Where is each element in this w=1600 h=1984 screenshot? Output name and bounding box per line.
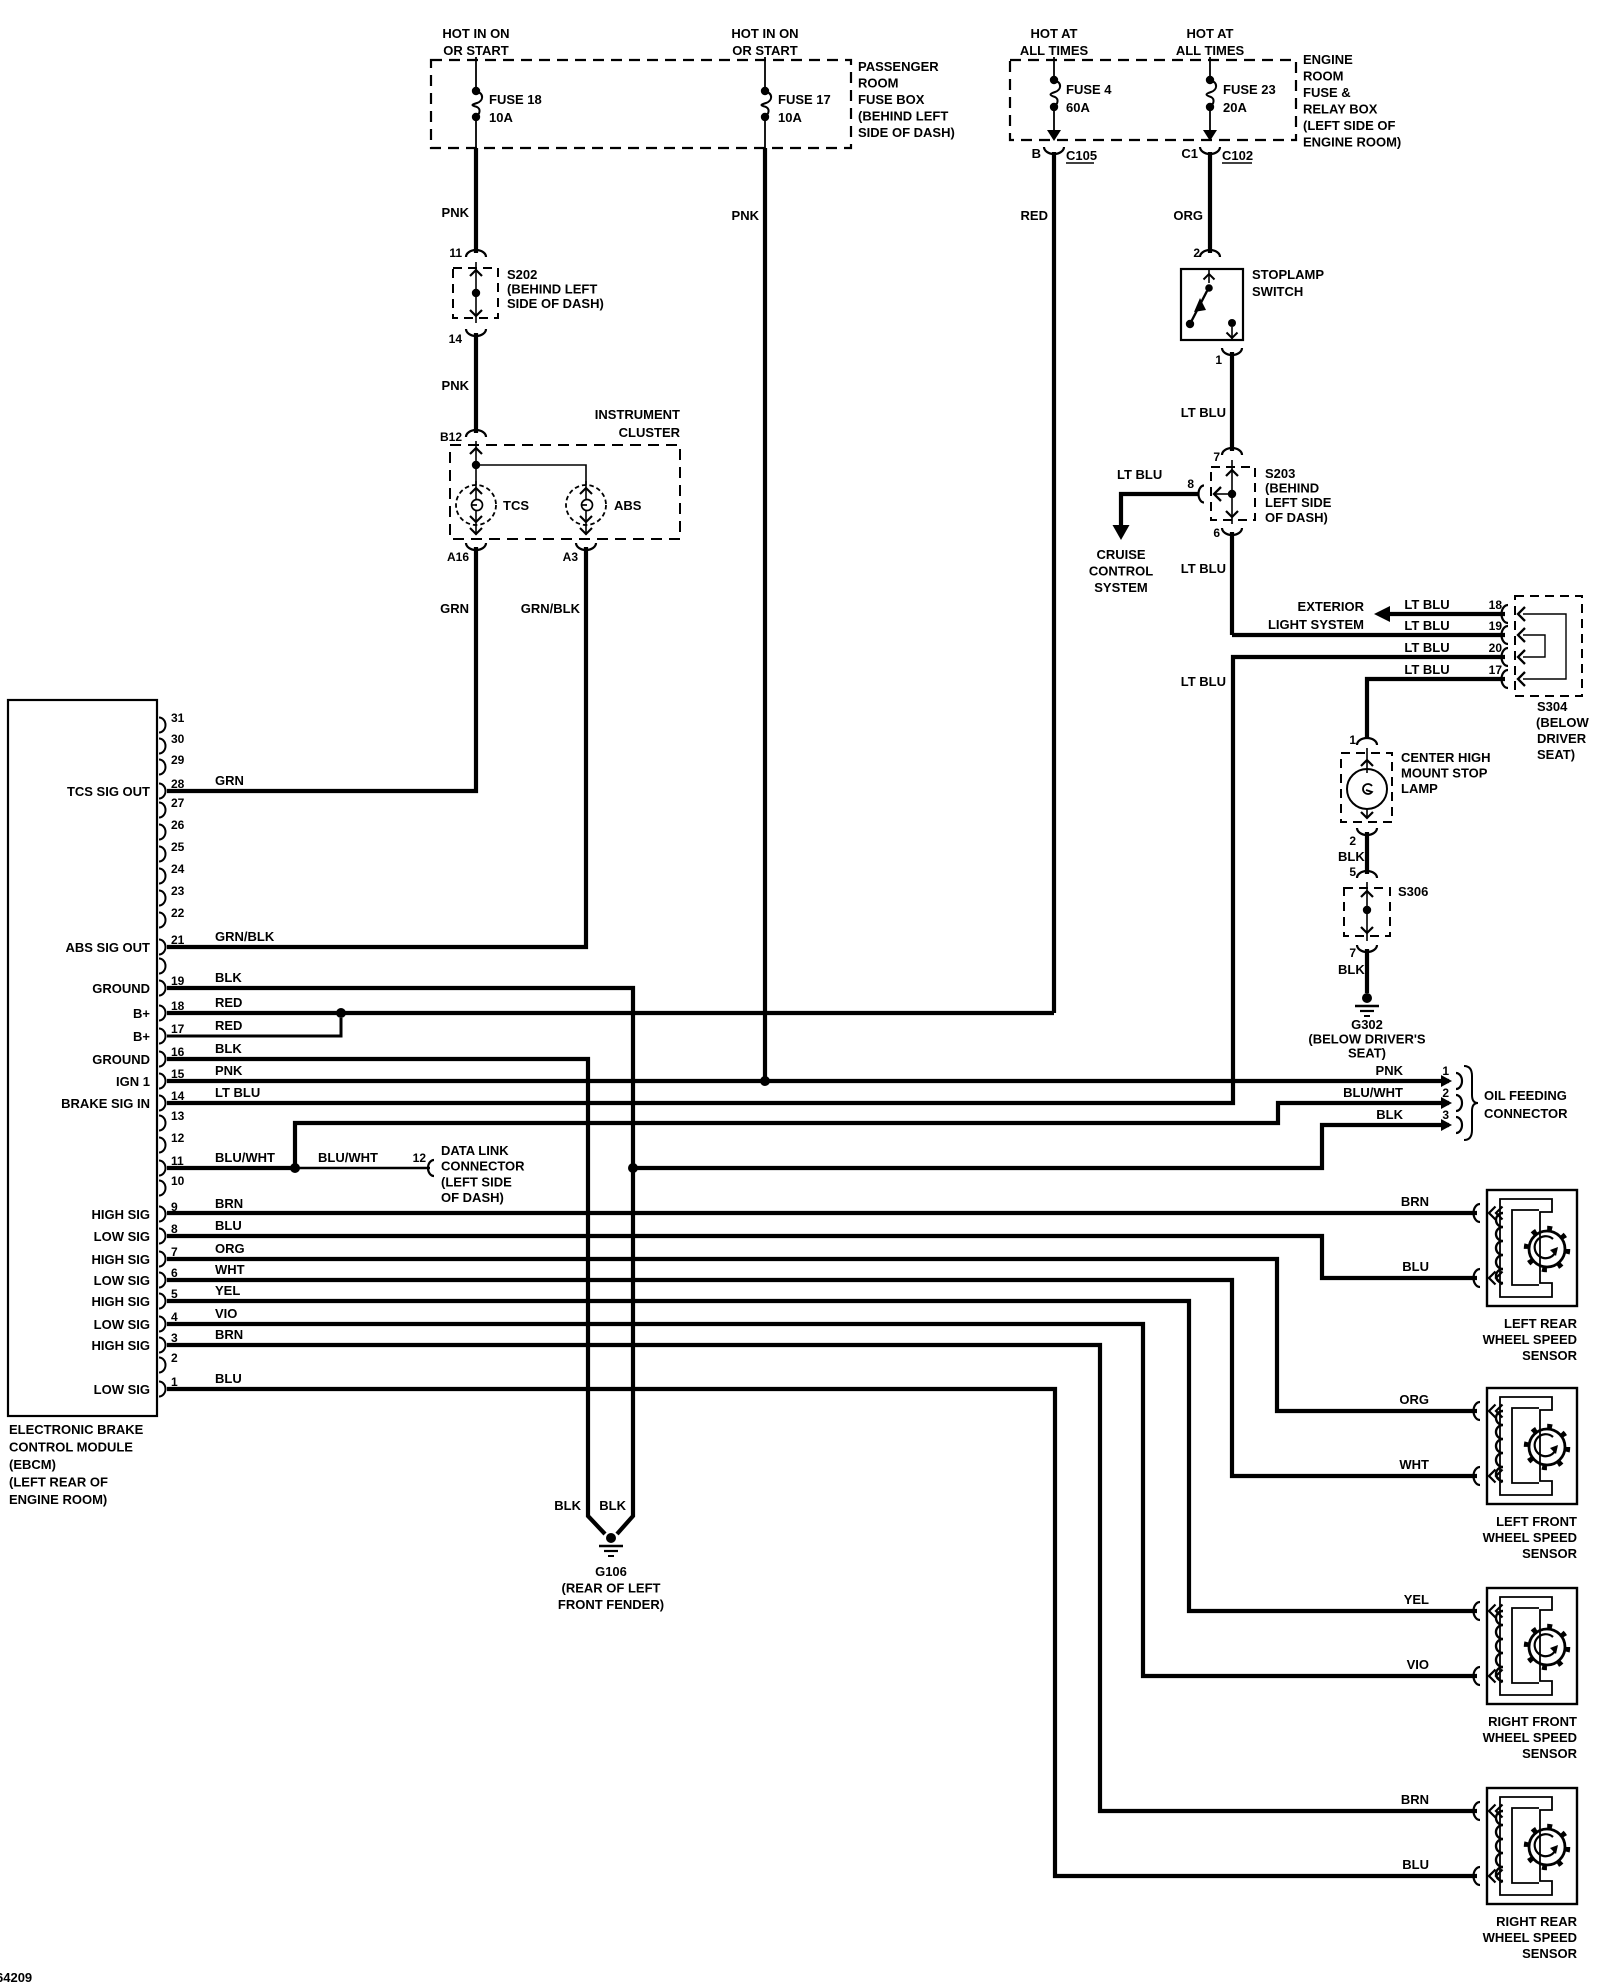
svg-text:B: B <box>1032 146 1041 161</box>
svg-text:GROUND: GROUND <box>92 1052 150 1067</box>
svg-text:DATA LINK: DATA LINK <box>441 1143 509 1158</box>
svg-text:LT BLU: LT BLU <box>1117 467 1162 482</box>
svg-text:MOUNT STOP: MOUNT STOP <box>1401 766 1488 781</box>
wire GRN cluster A16 to EBCM pin 28 <box>167 547 476 791</box>
wire BRN pin3 to right rear wheel speed sensor <box>167 1345 1477 1811</box>
svg-text:BRN: BRN <box>215 1327 243 1342</box>
svg-text:RELAY BOX: RELAY BOX <box>1303 102 1378 117</box>
svg-text:CONNECTOR: CONNECTOR <box>1484 1106 1568 1121</box>
splice S203 (dashed box) <box>1211 467 1255 520</box>
left rear wheel speed sensor <box>1487 1190 1577 1306</box>
svg-text:FUSE 4: FUSE 4 <box>1066 82 1112 97</box>
svg-text:14: 14 <box>171 1089 185 1103</box>
junction dot S306 <box>1363 906 1371 914</box>
svg-text:(LEFT REAR OF: (LEFT REAR OF <box>9 1475 108 1490</box>
svg-text:19: 19 <box>1489 619 1503 633</box>
svg-text:RIGHT REAR: RIGHT REAR <box>1496 1914 1578 1929</box>
svg-text:HOT AT: HOT AT <box>1031 26 1078 41</box>
svg-text:60A: 60A <box>1066 100 1090 115</box>
wire LT BLU S203 pin8 to cruise control <box>1121 494 1199 526</box>
wire BLK branch to oil feeding connector pin 3 <box>633 1125 1449 1168</box>
EBCM pin arcs <box>159 718 166 1397</box>
connector arc cluster pin A16 <box>466 543 486 550</box>
wire BLU pin1 to right rear wheel speed sensor <box>167 1389 1477 1876</box>
wire LT BLU to S304 pin 19 <box>1232 633 1505 637</box>
S203 internal arrow to pin 8 <box>1214 493 1228 495</box>
svg-text:12: 12 <box>171 1131 185 1145</box>
svg-text:FUSE 17: FUSE 17 <box>778 92 831 107</box>
svg-text:BLU: BLU <box>1402 1857 1429 1872</box>
svg-text:VIO: VIO <box>1407 1657 1429 1672</box>
svg-text:SIDE OF DASH): SIDE OF DASH) <box>858 125 955 140</box>
wire BRN pin9 to left rear wheel speed sensor <box>167 1211 1477 1215</box>
wire LT BLU S203 pin6 down to S304 pin 19 and EBCM pin 14 column <box>1230 532 1234 635</box>
svg-text:26: 26 <box>171 818 185 832</box>
svg-text:B12: B12 <box>440 430 462 444</box>
svg-text:7: 7 <box>1213 450 1220 464</box>
wire fuse23 feed <box>1209 57 1211 80</box>
svg-text:ENGINE ROOM): ENGINE ROOM) <box>9 1492 107 1507</box>
svg-text:LOW SIG: LOW SIG <box>94 1273 150 1288</box>
svg-text:1: 1 <box>1349 733 1356 747</box>
fuse F23 20A <box>1206 76 1214 84</box>
svg-text:CONNECTOR: CONNECTOR <box>441 1159 525 1174</box>
svg-text:C105: C105 <box>1066 148 1097 163</box>
svg-text:BLK: BLK <box>215 970 242 985</box>
svg-text:FRONT FENDER): FRONT FENDER) <box>558 1597 664 1612</box>
wire RED pin18 B+ to fuse4 column <box>167 1011 1054 1015</box>
svg-text:2: 2 <box>1442 1086 1449 1100</box>
svg-text:SENSOR: SENSOR <box>1522 1546 1578 1561</box>
svg-text:(BELOW: (BELOW <box>1536 715 1589 730</box>
svg-text:13: 13 <box>171 1109 185 1123</box>
svg-text:BRN: BRN <box>215 1196 243 1211</box>
fuse F4 60A <box>1050 76 1058 84</box>
connector arc S202 pin 11 <box>466 250 486 257</box>
wire BLU pin8 to left rear wheel speed sensor <box>167 1236 1477 1278</box>
svg-text:10A: 10A <box>489 110 513 125</box>
svg-text:14: 14 <box>449 332 463 346</box>
svg-text:HOT IN ON: HOT IN ON <box>442 26 509 41</box>
wire BLU/WHT branch to oil feeding connector pin 2 <box>295 1103 1449 1168</box>
svg-text:OF DASH): OF DASH) <box>441 1190 504 1205</box>
svg-text:LAMP: LAMP <box>1401 781 1438 796</box>
wire VIO pin4 to right front wheel speed sensor <box>167 1324 1477 1676</box>
svg-text:22: 22 <box>171 906 185 920</box>
svg-text:10: 10 <box>171 1174 185 1188</box>
wire fuse18 to box exit <box>475 117 477 148</box>
svg-text:(BEHIND LEFT: (BEHIND LEFT <box>858 109 948 124</box>
electronic brake control module EBCM box <box>8 700 157 1416</box>
svg-text:WHEEL SPEED: WHEEL SPEED <box>1483 1530 1577 1545</box>
svg-text:20: 20 <box>1489 641 1503 655</box>
svg-text:LT BLU: LT BLU <box>1181 405 1226 420</box>
svg-text:29: 29 <box>171 753 185 767</box>
svg-text:GRN: GRN <box>215 773 244 788</box>
wire PNK pin15 IGN1 to oil feeding connector pin 1 <box>167 1079 1449 1083</box>
svg-text:WHT: WHT <box>215 1262 245 1277</box>
svg-text:ROOM: ROOM <box>1303 69 1343 84</box>
EBCM pin numbers <box>171 711 185 1389</box>
oil feeding connector pins <box>1441 1075 1452 1087</box>
wire fuse18 feed <box>475 57 477 91</box>
junction dot S203 <box>1228 490 1236 498</box>
wire LT BLU S304 pin 20 to EBCM pin 14 <box>167 657 1505 1103</box>
svg-text:BLK: BLK <box>599 1498 626 1513</box>
EBCM wire colour labels <box>215 773 275 1386</box>
svg-text:BLU: BLU <box>1402 1259 1429 1274</box>
wire BLU/WHT pin11 to junction <box>167 1166 295 1170</box>
svg-text:18: 18 <box>1489 598 1503 612</box>
fuse F18 10A <box>472 87 480 95</box>
connector arc S203 pin 8 <box>1199 486 1204 503</box>
center high mount stop lamp (dashed box) <box>1341 753 1392 822</box>
ground G302 <box>1362 993 1372 1003</box>
connector arc CHMSL pin 2 <box>1357 828 1377 835</box>
connector arc S203 pin 6 <box>1222 528 1242 535</box>
stoplamp switch box <box>1181 269 1243 340</box>
svg-text:SEAT): SEAT) <box>1537 747 1575 762</box>
stoplamp switch internals <box>1208 269 1210 283</box>
right rear wheel speed sensor <box>1487 1788 1577 1904</box>
svg-text:PNK: PNK <box>442 378 470 393</box>
S304 internal link 19-20 <box>1523 635 1545 657</box>
svg-text:HIGH SIG: HIGH SIG <box>91 1207 150 1222</box>
svg-text:LT BLU: LT BLU <box>1404 662 1449 677</box>
svg-text:A3: A3 <box>563 550 579 564</box>
svg-text:CLUSTER: CLUSTER <box>619 425 681 440</box>
svg-text:2: 2 <box>1349 834 1356 848</box>
svg-text:(LEFT SIDE OF: (LEFT SIDE OF <box>1303 118 1396 133</box>
svg-text:OIL FEEDING: OIL FEEDING <box>1484 1088 1567 1103</box>
svg-text:7: 7 <box>1349 946 1356 960</box>
svg-text:BLK: BLK <box>554 1498 581 1513</box>
svg-text:LEFT FRONT: LEFT FRONT <box>1496 1514 1577 1529</box>
svg-text:(BEHIND: (BEHIND <box>1265 481 1319 496</box>
svg-text:RED: RED <box>1021 208 1048 223</box>
svg-text:ENGINE ROOM): ENGINE ROOM) <box>1303 135 1401 150</box>
brace oil feeding connector <box>1464 1066 1478 1140</box>
svg-text:(BEHIND LEFT: (BEHIND LEFT <box>507 282 597 297</box>
svg-text:RIGHT FRONT: RIGHT FRONT <box>1488 1714 1577 1729</box>
connector arc S203 pin 7 <box>1222 448 1242 455</box>
connector arc data link connector pin 12 <box>428 1160 434 1176</box>
connector arc S306 pin 7 <box>1357 945 1377 952</box>
svg-text:LT BLU: LT BLU <box>1404 597 1449 612</box>
wire BLK CHMSL to S306 <box>1365 832 1369 874</box>
svg-text:HOT IN ON: HOT IN ON <box>731 26 798 41</box>
svg-text:FUSE BOX: FUSE BOX <box>858 92 925 107</box>
svg-text:28: 28 <box>171 777 185 791</box>
svg-text:LT BLU: LT BLU <box>215 1085 260 1100</box>
ground G106 <box>606 1533 616 1543</box>
svg-text:SIDE OF DASH): SIDE OF DASH) <box>507 296 604 311</box>
svg-text:DRIVER: DRIVER <box>1537 731 1587 746</box>
connector arc cluster pin A3 <box>576 543 596 550</box>
junction dot B+ pins 17/18 <box>336 1008 346 1018</box>
svg-text:2: 2 <box>171 1351 178 1365</box>
svg-text:BLU: BLU <box>215 1218 242 1233</box>
svg-text:LOW SIG: LOW SIG <box>94 1317 150 1332</box>
svg-text:BLU/WHT: BLU/WHT <box>1343 1085 1403 1100</box>
svg-text:31: 31 <box>171 711 185 725</box>
wire ORG pin7 to left front wheel speed sensor <box>167 1259 1477 1411</box>
svg-text:(REAR OF LEFT: (REAR OF LEFT <box>562 1581 661 1596</box>
svg-text:ELECTRONIC BRAKE: ELECTRONIC BRAKE <box>9 1422 144 1437</box>
svg-text:BLU/WHT: BLU/WHT <box>318 1150 378 1165</box>
svg-text:BRN: BRN <box>1401 1194 1429 1209</box>
svg-text:LOW SIG: LOW SIG <box>94 1229 150 1244</box>
svg-text:HIGH SIG: HIGH SIG <box>91 1252 150 1267</box>
svg-text:G106: G106 <box>595 1564 627 1579</box>
junction dot PNK/IGN1 <box>760 1076 770 1086</box>
node cluster branch <box>472 461 480 469</box>
wire BLU/WHT stub to data link connector pin 12 <box>295 1167 430 1170</box>
connector C102 pin C1 <box>1200 147 1220 154</box>
wire GRN/BLK cluster A3 to EBCM pin 21 <box>167 547 586 947</box>
svg-text:BLU: BLU <box>215 1371 242 1386</box>
svg-text:S304: S304 <box>1537 699 1568 714</box>
svg-text:64209: 64209 <box>0 1970 32 1984</box>
svg-text:ORG: ORG <box>1173 208 1203 223</box>
junction dot BLK oil connector <box>628 1163 638 1173</box>
svg-text:GROUND: GROUND <box>92 981 150 996</box>
CHMSL bulb <box>1366 748 1368 773</box>
svg-text:23: 23 <box>171 884 185 898</box>
svg-text:ABS: ABS <box>614 498 642 513</box>
wire BLK pin16 to ground G106 <box>167 1059 605 1534</box>
passenger room fuse box (dashed) <box>431 60 851 148</box>
svg-text:S203: S203 <box>1265 466 1295 481</box>
svg-text:SENSOR: SENSOR <box>1522 1746 1578 1761</box>
svg-text:17: 17 <box>171 1022 185 1036</box>
svg-text:ENGINE: ENGINE <box>1303 52 1353 67</box>
svg-text:ORG: ORG <box>215 1241 245 1256</box>
svg-text:24: 24 <box>171 862 185 876</box>
wire PNK fuse17 to IGN1 net junction <box>763 148 767 1081</box>
svg-text:3: 3 <box>1442 1108 1449 1122</box>
svg-text:SENSOR: SENSOR <box>1522 1348 1578 1363</box>
wire RED fuse4 to EBCM B+ net <box>1052 152 1056 1013</box>
svg-text:17: 17 <box>1489 663 1503 677</box>
right front wheel speed sensor <box>1487 1588 1577 1704</box>
svg-text:WHEEL SPEED: WHEEL SPEED <box>1483 1332 1577 1347</box>
S304 internal link 18-17 <box>1523 614 1566 679</box>
svg-text:C1: C1 <box>1181 146 1198 161</box>
engine room fuse & relay box (dashed) <box>1010 60 1296 140</box>
svg-text:OR START: OR START <box>443 43 509 58</box>
EBCM left pin labels <box>61 784 150 1397</box>
svg-text:GRN/BLK: GRN/BLK <box>215 929 275 944</box>
svg-text:BRN: BRN <box>1401 1792 1429 1807</box>
wire BLK S306 to ground G302 <box>1365 949 1369 993</box>
svg-text:FUSE 23: FUSE 23 <box>1223 82 1276 97</box>
svg-text:INSTRUMENT: INSTRUMENT <box>595 407 680 422</box>
svg-text:C102: C102 <box>1222 148 1253 163</box>
svg-text:S306: S306 <box>1398 884 1428 899</box>
splice S202 (dashed box) <box>453 268 498 318</box>
svg-text:LEFT SIDE: LEFT SIDE <box>1265 495 1332 510</box>
wire PNK S202 to instrument cluster B12 <box>474 333 478 433</box>
svg-text:TCS SIG OUT: TCS SIG OUT <box>67 784 150 799</box>
wire LT BLU exterior light system arrow from S304 pin 18 <box>1390 612 1505 616</box>
svg-text:BLK: BLK <box>1338 849 1365 864</box>
svg-text:(EBCM): (EBCM) <box>9 1457 56 1472</box>
svg-text:A16: A16 <box>447 550 469 564</box>
wire BLK pin19 to G106/oil connector column <box>167 988 633 1534</box>
svg-text:LEFT REAR: LEFT REAR <box>1504 1316 1578 1331</box>
svg-text:WHT: WHT <box>1399 1457 1429 1472</box>
svg-text:11: 11 <box>449 246 462 260</box>
indicator bulb TCS <box>456 485 496 525</box>
svg-text:20A: 20A <box>1223 100 1247 115</box>
splice S306 (dashed box) <box>1344 888 1390 936</box>
svg-text:SWITCH: SWITCH <box>1252 284 1303 299</box>
svg-text:ALL TIMES: ALL TIMES <box>1020 43 1089 58</box>
svg-text:25: 25 <box>171 840 185 854</box>
svg-text:SENSOR: SENSOR <box>1522 1946 1578 1961</box>
fuse F17 10A <box>761 87 769 95</box>
indicator bulb ABS <box>566 485 606 525</box>
wire LT BLU S304 pin 17 to center high mount stop lamp <box>1367 679 1505 737</box>
connector arc S202 pin 14 <box>466 329 486 336</box>
svg-text:FUSE 18: FUSE 18 <box>489 92 542 107</box>
wire ORG fuse23 to stoplamp switch <box>1208 152 1212 253</box>
svg-text:LT BLU: LT BLU <box>1181 561 1226 576</box>
junction dot S202 <box>472 289 480 297</box>
svg-text:WHEEL SPEED: WHEEL SPEED <box>1483 1930 1577 1945</box>
svg-text:TCS: TCS <box>503 498 529 513</box>
wire RED pin17 B+ stub <box>167 1018 341 1036</box>
connector arc CHMSL pin 1 <box>1357 738 1377 745</box>
svg-text:BLK: BLK <box>215 1041 242 1056</box>
svg-text:S202: S202 <box>507 267 537 282</box>
wire PNK fuse18 to splice S202 pin 11 <box>474 148 478 253</box>
svg-text:LIGHT SYSTEM: LIGHT SYSTEM <box>1268 617 1364 632</box>
svg-text:SEAT): SEAT) <box>1348 1046 1386 1061</box>
svg-text:LT BLU: LT BLU <box>1404 640 1449 655</box>
svg-text:21: 21 <box>171 933 185 947</box>
svg-text:PASSENGER: PASSENGER <box>858 59 939 74</box>
svg-text:6: 6 <box>1213 526 1220 540</box>
svg-text:ABS SIG OUT: ABS SIG OUT <box>65 940 150 955</box>
svg-text:B+: B+ <box>133 1006 150 1021</box>
svg-text:HIGH SIG: HIGH SIG <box>91 1294 150 1309</box>
svg-text:RED: RED <box>215 995 242 1010</box>
svg-text:G302: G302 <box>1351 1017 1383 1032</box>
wire WHT pin6 to left front wheel speed sensor <box>167 1280 1477 1476</box>
svg-text:OF DASH): OF DASH) <box>1265 510 1328 525</box>
S304 pin arcs and arrows <box>1502 605 1508 623</box>
svg-text:IGN 1: IGN 1 <box>116 1074 150 1089</box>
svg-text:1: 1 <box>1215 353 1222 367</box>
svg-text:FUSE &: FUSE & <box>1303 85 1351 100</box>
svg-text:LT BLU: LT BLU <box>1404 618 1449 633</box>
svg-text:BLU/WHT: BLU/WHT <box>215 1150 275 1165</box>
svg-text:LT BLU: LT BLU <box>1181 674 1226 689</box>
wire fuse17 to box exit <box>764 117 766 148</box>
svg-text:CONTROL MODULE: CONTROL MODULE <box>9 1440 133 1455</box>
svg-text:PNK: PNK <box>1376 1063 1404 1078</box>
wire cluster internal branch to ABS bulb <box>476 465 586 485</box>
svg-text:12: 12 <box>413 1151 427 1165</box>
wire fuse17 feed <box>764 57 766 91</box>
svg-text:BRAKE SIG IN: BRAKE SIG IN <box>61 1096 150 1111</box>
connector arc S306 pin 5 <box>1357 871 1377 878</box>
connector arc stoplamp switch pin 1 <box>1222 348 1242 355</box>
svg-text:ALL TIMES: ALL TIMES <box>1176 43 1245 58</box>
left front wheel speed sensor <box>1487 1388 1577 1504</box>
svg-text:VIO: VIO <box>215 1306 237 1321</box>
svg-text:RED: RED <box>215 1018 242 1033</box>
svg-text:GRN/BLK: GRN/BLK <box>521 601 581 616</box>
svg-text:CRUISE: CRUISE <box>1096 547 1145 562</box>
connector C105 pin B <box>1044 147 1064 154</box>
svg-text:2: 2 <box>1193 246 1200 260</box>
svg-text:30: 30 <box>171 732 185 746</box>
svg-text:YEL: YEL <box>1404 1592 1429 1607</box>
svg-text:BLK: BLK <box>1338 962 1365 977</box>
svg-text:GRN: GRN <box>440 601 469 616</box>
svg-text:PNK: PNK <box>442 205 470 220</box>
svg-text:5: 5 <box>1349 865 1356 879</box>
svg-text:(LEFT SIDE: (LEFT SIDE <box>441 1174 512 1189</box>
svg-text:STOPLAMP: STOPLAMP <box>1252 267 1324 282</box>
svg-text:YEL: YEL <box>215 1283 240 1298</box>
svg-text:ORG: ORG <box>1399 1392 1429 1407</box>
svg-text:SYSTEM: SYSTEM <box>1094 580 1147 595</box>
instrument cluster (dashed box) <box>450 445 680 539</box>
wire fuse4 feed <box>1053 57 1055 80</box>
svg-text:LOW SIG: LOW SIG <box>94 1382 150 1397</box>
svg-text:OR START: OR START <box>732 43 798 58</box>
svg-text:WHEEL SPEED: WHEEL SPEED <box>1483 1730 1577 1745</box>
connector arc cluster pin B12 <box>466 430 486 437</box>
splice S304 (dashed box) <box>1515 596 1582 696</box>
svg-text:EXTERIOR: EXTERIOR <box>1298 599 1365 614</box>
svg-text:ROOM: ROOM <box>858 76 898 91</box>
svg-text:PNK: PNK <box>215 1063 243 1078</box>
svg-text:1: 1 <box>1442 1064 1449 1078</box>
svg-text:10A: 10A <box>778 110 802 125</box>
svg-text:PNK: PNK <box>732 208 760 223</box>
svg-text:HOT AT: HOT AT <box>1187 26 1234 41</box>
connector arc stoplamp switch pin 2 <box>1200 250 1220 257</box>
wire LT BLU stoplamp to S203 pin 7 <box>1230 352 1234 451</box>
wire YEL pin5 to right front wheel speed sensor <box>167 1301 1477 1611</box>
wire fuse4 to connector B <box>1053 107 1055 131</box>
svg-text:BLK: BLK <box>1376 1107 1403 1122</box>
arrow to cruise control system <box>1113 525 1130 540</box>
svg-text:27: 27 <box>171 796 185 810</box>
wire fuse23 to connector C1 <box>1209 107 1211 131</box>
wire into cluster from B12 <box>475 441 477 460</box>
svg-text:8: 8 <box>1187 477 1194 491</box>
junction dot BLU/WHT <box>290 1163 300 1173</box>
svg-text:B+: B+ <box>133 1029 150 1044</box>
svg-text:CENTER HIGH: CENTER HIGH <box>1401 750 1491 765</box>
svg-text:CONTROL: CONTROL <box>1089 564 1153 579</box>
svg-text:(BELOW DRIVER'S: (BELOW DRIVER'S <box>1308 1032 1426 1047</box>
svg-text:HIGH SIG: HIGH SIG <box>91 1338 150 1353</box>
